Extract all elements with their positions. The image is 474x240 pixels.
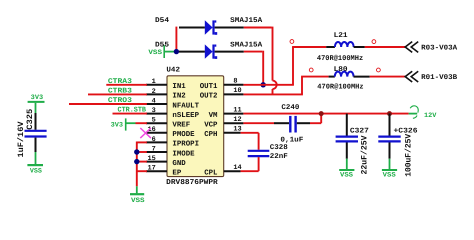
svg-text:1uF/16V: 1uF/16V: [17, 121, 26, 157]
power symbol 12V: [409, 113, 418, 115]
svg-text:470R@100MHz: 470R@100MHz: [317, 54, 363, 63]
capacitor C325 reference (rotated): [26, 109, 35, 130]
svg-text:470R@100MHz: 470R@100MHz: [317, 82, 363, 91]
svg-text:C325: C325: [26, 109, 35, 130]
wire VSS stub to D55 anode / up to D54: [175, 51, 180, 53]
capacitor C328 (CPH-CPL): [241, 132, 259, 134]
off-page connector R03-V03A: [405, 42, 412, 53]
node junction D55/OUT1: [261, 82, 266, 87]
svg-text:7: 7: [152, 145, 156, 153]
node junction GND: [134, 159, 139, 164]
svg-text:nSLEEP: nSLEEP: [172, 112, 199, 120]
svg-text:4: 4: [152, 97, 156, 105]
svg-text:11: 11: [233, 106, 241, 114]
off-page connector R01-V03B: [405, 71, 412, 82]
wire OUT2 to L80 riser: [243, 93, 303, 95]
wire D55 cathode to OUT1: [244, 51, 262, 53]
svg-text:8: 8: [233, 78, 237, 86]
ground VSS (C325): [35, 152, 37, 164]
diode D54 (TVS): [179, 27, 205, 29]
capacitor C325 value 1uF/16V (rotated): [17, 121, 26, 157]
inductor L21: [292, 46, 326, 48]
node junction at VSS/D54/D55: [174, 49, 179, 54]
capacitor C325: [35, 113, 37, 130]
node junction C326/VM: [387, 111, 392, 116]
wire IPROPI net vertical: [136, 142, 138, 187]
wire L21 to off-page: [365, 46, 405, 48]
ground VSS (C327): [346, 159, 348, 170]
svg-text:VSS: VSS: [30, 167, 42, 175]
svg-text:L21: L21: [334, 32, 349, 40]
svg-text:VSS: VSS: [340, 171, 353, 179]
svg-text:U42: U42: [166, 67, 180, 75]
svg-text:15: 15: [148, 155, 156, 163]
svg-text:C327: C327: [350, 128, 369, 136]
svg-text:IN2: IN2: [172, 93, 185, 101]
svg-text:CPH: CPH: [204, 131, 217, 139]
diode D55 (TVS): [179, 51, 205, 53]
ground VSS (C326): [389, 159, 391, 170]
node stub circle (L80 left): [309, 68, 313, 72]
svg-text:1: 1: [152, 78, 156, 86]
svg-text:6: 6: [152, 136, 156, 144]
node stub circle (L21 left): [290, 40, 294, 44]
IC U42 left pin stubs: [146, 84, 167, 86]
svg-text:VSS: VSS: [148, 49, 162, 57]
svg-text:12: 12: [233, 116, 241, 124]
svg-text:3: 3: [152, 107, 156, 115]
inductor L80: [329, 76, 335, 78]
svg-text:R01-V03B: R01-V03B: [421, 74, 458, 82]
wire VM rail: [243, 113, 408, 115]
svg-text:IPROPI: IPROPI: [172, 141, 199, 149]
svg-text:R03-V03A: R03-V03A: [421, 44, 458, 52]
svg-text:D55: D55: [155, 41, 169, 49]
svg-text:VSS: VSS: [131, 197, 145, 205]
wire 3V3 to VREF: [136, 122, 147, 124]
svg-text:PMODE: PMODE: [172, 131, 195, 139]
svg-text:12V: 12V: [424, 112, 436, 120]
svg-text:VM: VM: [209, 112, 218, 120]
svg-text:EP: EP: [172, 170, 181, 178]
wire D54 cathode to OUT2 (with hop over OUT1): [244, 27, 272, 29]
ground VSS (below IC): [136, 186, 138, 193]
svg-text:22uF/25V: 22uF/25V: [361, 135, 370, 174]
svg-text:SMAJ15A: SMAJ15A: [230, 41, 263, 49]
svg-text:CPL: CPL: [204, 170, 218, 178]
svg-text:OUT2: OUT2: [200, 93, 218, 101]
svg-text:VREF: VREF: [172, 122, 190, 130]
svg-text:10: 10: [233, 87, 241, 95]
node junction IMODE: [134, 149, 139, 154]
svg-text:100uF/25V: 100uF/25V: [404, 134, 413, 177]
svg-text:14: 14: [233, 164, 241, 172]
svg-text:VSS: VSS: [383, 171, 396, 179]
capacitor C326 value 100uF/25V (rotated): [404, 134, 413, 177]
node stub circle (L80 right): [377, 68, 381, 72]
capacitor C327 value 22uF/25V (rotated): [361, 135, 370, 174]
svg-text:D54: D54: [155, 17, 170, 25]
node junction C240/VM: [319, 111, 324, 116]
capacitor C240 (VCP-VM): [243, 122, 274, 124]
svg-text:13: 13: [233, 126, 241, 134]
svg-text:17: 17: [148, 165, 156, 173]
node stub circle (L21 right): [372, 40, 376, 44]
svg-text:GND: GND: [172, 160, 186, 168]
svg-text:3V3: 3V3: [111, 122, 123, 130]
capacitor C326 (polarized): [389, 114, 391, 136]
wire L80 to off-page: [370, 76, 406, 78]
svg-text:IN1: IN1: [172, 83, 186, 91]
svg-text:5: 5: [152, 117, 156, 125]
IC U42 body DRV8876PWPR: [167, 76, 224, 177]
svg-text:NFAULT: NFAULT: [172, 102, 199, 110]
svg-text:SMAJ15A: SMAJ15A: [230, 17, 263, 25]
capacitor C327: [346, 114, 348, 136]
svg-text:C240: C240: [281, 104, 299, 112]
svg-text:DRV8876PWPR: DRV8876PWPR: [166, 179, 218, 187]
no-connect X on PMODE pin 16: [140, 128, 151, 138]
svg-text:2: 2: [152, 88, 156, 96]
svg-text:22nF: 22nF: [270, 153, 288, 161]
IC U42 right pin stubs: [224, 84, 244, 86]
wire OUT1 to L21 riser: [243, 84, 294, 86]
svg-text:C328: C328: [270, 144, 288, 152]
svg-text:IMODE: IMODE: [172, 150, 195, 158]
svg-text:VCP: VCP: [204, 122, 218, 130]
svg-text:OUT1: OUT1: [200, 83, 218, 91]
